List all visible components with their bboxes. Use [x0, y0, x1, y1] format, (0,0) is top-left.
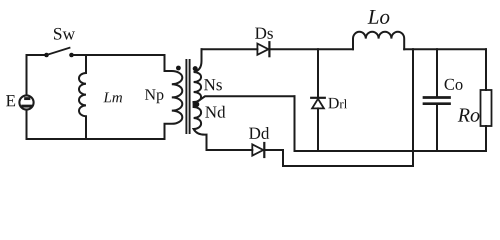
junction dot Ns/Nd: [194, 101, 200, 107]
wire: Nd to Dd: [207, 149, 253, 151]
resistor Ro (load): [481, 49, 492, 151]
transformer core: [186, 60, 189, 133]
wire: left vertical below source E: [26, 110, 28, 139]
transformer secondary winding Ns: [194, 49, 202, 102]
polarity dot (primary): [176, 66, 181, 71]
label Ns: [204, 79, 222, 90]
inductor Lm (magnetizing): [79, 55, 86, 139]
wire: Ds cathode to Lo: [269, 48, 353, 50]
label Nd: [205, 106, 225, 118]
switch Sw: [44, 48, 74, 58]
label Drl: [328, 98, 347, 109]
wire: Dd-return vertical (output node down to reset rail): [412, 49, 414, 166]
transformer demag winding Nd: [194, 102, 207, 150]
label Ds: [255, 28, 273, 39]
label Lo: [368, 10, 390, 24]
wire: primary bottom rail: [27, 138, 165, 140]
label Sw: [54, 28, 75, 40]
polarity dot (secondary Ns): [193, 66, 198, 71]
label Co: [445, 79, 463, 90]
wire: center-tap corner down to secondary bottom rail: [294, 96, 296, 151]
diode Dd: [252, 143, 264, 157]
diode Drl (freewheeling): [311, 49, 325, 151]
label E: [6, 95, 15, 106]
wire: Lo to top-right corner: [404, 48, 486, 50]
wire: reset return bottom run: [283, 165, 413, 167]
wire: center tap to right corner: [198, 96, 295, 101]
label Ro: [458, 109, 480, 122]
wire: primary top rail from source to switch: [27, 54, 45, 56]
diode Ds: [257, 42, 269, 56]
wire: left vertical above source E: [26, 55, 28, 95]
label Np: [145, 89, 163, 103]
inductor Lo: [353, 32, 404, 50]
wire: secondary top rail, Ns to Ds: [202, 48, 258, 50]
wire: Dd cathode to reset-return corner: [264, 150, 283, 166]
label Dd: [249, 127, 269, 139]
voltage source E (circle with cell marks): [19, 95, 33, 109]
label Lm: [103, 92, 122, 102]
capacitor Co: [424, 49, 450, 151]
wire: secondary bottom rail: [295, 150, 487, 152]
wire: switch to transformer primary corner: [74, 54, 165, 56]
transformer primary winding Np: [165, 55, 183, 139]
